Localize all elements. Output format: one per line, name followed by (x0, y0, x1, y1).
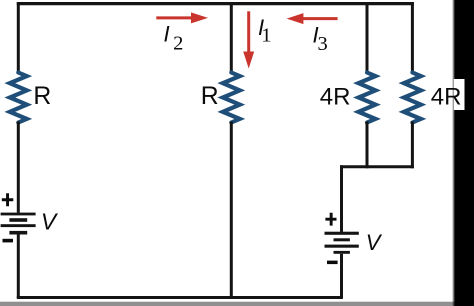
battery V2 plate long bottom (325, 245, 359, 248)
resistor R3 (4R left) (359, 73, 376, 123)
current arrow I1 (243, 11, 254, 68)
wire right branch B lower (411, 122, 414, 169)
battery V1 plate long top (1, 213, 36, 216)
wire right horizontal connector (340, 165, 414, 168)
wire right branch B upper (411, 2, 414, 74)
wire middle vertical upper (230, 2, 233, 74)
battery V2 plate short lower (334, 251, 350, 254)
resistor R4 (4R right) (404, 73, 421, 123)
battery V1 plate short upper (9, 218, 27, 222)
battery V2 plate short upper (334, 238, 350, 241)
battery V2 minus sign (327, 261, 338, 265)
battery V2 plus sign (325, 213, 336, 226)
wire left vertical lower (17, 122, 20, 213)
wire top horizontal (17, 2, 414, 5)
svg-text:R: R (33, 83, 51, 110)
svg-text:4R: 4R (320, 84, 351, 111)
svg-text:4R: 4R (431, 84, 462, 111)
current arrow I3 (287, 13, 338, 24)
wire left vertical upper (17, 2, 20, 74)
svg-text:V: V (366, 230, 383, 255)
resistor R2 (middle) (223, 73, 240, 123)
label background notch for 4R right (454, 79, 465, 110)
battery V1 plus sign (2, 193, 14, 206)
svg-text:V: V (41, 209, 59, 235)
wire right branch A lower (366, 122, 369, 169)
svg-text:3: 3 (318, 33, 328, 55)
svg-text:R: R (201, 83, 219, 110)
battery V1 plate long bottom (1, 224, 36, 227)
wire right branch A upper (366, 2, 369, 74)
current arrow I2 (156, 12, 208, 23)
svg-text:2: 2 (173, 33, 183, 55)
wire right battery branch upper (340, 165, 343, 232)
gray page strip bottom (0, 302, 462, 306)
battery V2 plate long top (325, 232, 359, 235)
wire right battery to bottom (340, 254, 343, 298)
wire bottom horizontal (17, 296, 343, 299)
wire middle vertical lower (230, 122, 233, 300)
battery V1 plate short lower (9, 231, 27, 235)
battery V1 minus sign (3, 239, 14, 243)
resistor R1 (left) (10, 73, 27, 123)
svg-text:I: I (164, 22, 170, 47)
black page bar right (455, 0, 474, 306)
wire left battery to bottom (17, 234, 20, 298)
svg-text:1: 1 (261, 25, 271, 47)
